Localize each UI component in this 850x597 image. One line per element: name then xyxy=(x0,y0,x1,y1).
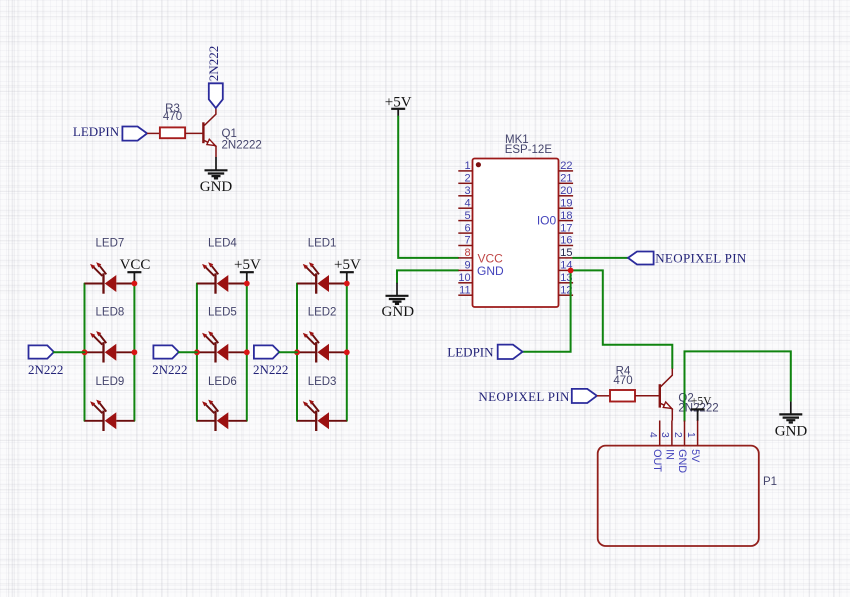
pin 11 xyxy=(458,284,472,296)
port NEOPIXEL PIN (right of IC) xyxy=(628,251,747,266)
power +5V (group2) xyxy=(234,257,261,284)
svg-text:GND: GND xyxy=(382,304,415,320)
power +5V (group3) xyxy=(334,257,361,284)
svg-text:470: 470 xyxy=(163,111,182,123)
wire R4 to Q2 base xyxy=(635,395,659,397)
port NEOPIXEL PIN (near R4) xyxy=(478,389,597,404)
pin 1 xyxy=(458,160,472,172)
wire left rail group1 xyxy=(84,284,86,421)
transistor Q2 xyxy=(660,369,719,421)
svg-text:2N222: 2N222 xyxy=(253,362,288,377)
LED LED1 xyxy=(297,238,347,294)
svg-text:LED5: LED5 xyxy=(208,307,237,319)
svg-text:8: 8 xyxy=(464,247,470,259)
svg-text:2N222: 2N222 xyxy=(206,46,221,81)
svg-text:LED3: LED3 xyxy=(308,376,337,388)
wire right rail group2 xyxy=(246,284,248,421)
wire pin 9 to GND xyxy=(397,270,458,282)
pin 12 xyxy=(559,284,574,296)
svg-text:LED7: LED7 xyxy=(96,238,125,250)
junction dot pin14 xyxy=(568,268,574,274)
pin 10 xyxy=(458,272,472,284)
port 2N222 (vertical, above Q1) xyxy=(206,46,223,108)
svg-text:5: 5 xyxy=(464,210,470,222)
svg-text:LED4: LED4 xyxy=(208,238,237,250)
pin 21 xyxy=(559,173,574,185)
svg-text:1: 1 xyxy=(464,160,470,172)
svg-text:VCC: VCC xyxy=(120,257,151,273)
pin 1 5V xyxy=(685,421,701,464)
pin 19 xyxy=(559,197,574,209)
port 2N222 (group3) xyxy=(253,345,288,377)
IC U=MK1 designator xyxy=(505,134,553,156)
pin 4 xyxy=(458,197,472,209)
svg-text:15: 15 xyxy=(560,247,572,259)
svg-text:GND: GND xyxy=(477,264,504,278)
svg-text:+5V: +5V xyxy=(334,257,361,273)
svg-text:+5V: +5V xyxy=(691,395,712,407)
svg-text:NEOPIXEL PIN: NEOPIXEL PIN xyxy=(478,389,570,404)
svg-text:2N222: 2N222 xyxy=(152,362,187,377)
LED LED2 xyxy=(297,307,347,363)
wire pin15 to port xyxy=(573,257,628,259)
pin 3 xyxy=(458,185,472,197)
junction dots mid group2 xyxy=(194,349,200,355)
svg-text:17: 17 xyxy=(560,222,572,234)
wire port to rail group3 xyxy=(279,351,297,353)
svg-text:LED2: LED2 xyxy=(308,307,337,319)
svg-text:9: 9 xyxy=(464,260,470,272)
pin 6 xyxy=(458,222,472,234)
LED LED4 xyxy=(197,238,247,294)
P1 body xyxy=(598,446,759,546)
port 2N222 (group1) xyxy=(28,345,63,377)
ground GND (below Q1) xyxy=(200,170,233,195)
svg-text:LEDPIN: LEDPIN xyxy=(73,124,120,139)
pin 17 xyxy=(559,222,574,234)
pin 5 xyxy=(458,210,472,222)
svg-text:1: 1 xyxy=(685,432,696,438)
port 2N222 (group2) xyxy=(152,345,187,377)
svg-text:IO0: IO0 xyxy=(537,213,557,227)
ground GND (right, near P1) xyxy=(775,401,808,440)
pin 18 xyxy=(559,210,574,222)
wire right rail group1 xyxy=(133,284,135,421)
svg-text:11: 11 xyxy=(459,284,470,296)
LED LED9 xyxy=(85,376,135,431)
svg-text:22: 22 xyxy=(560,160,572,172)
svg-text:10: 10 xyxy=(458,272,470,284)
svg-text:GND: GND xyxy=(676,449,688,473)
svg-text:2N2222: 2N2222 xyxy=(222,140,262,152)
svg-text:LED9: LED9 xyxy=(96,376,125,388)
svg-text:470: 470 xyxy=(613,375,632,387)
pin 16 xyxy=(559,235,574,247)
svg-text:18: 18 xyxy=(560,210,572,222)
power +5V (above IC) xyxy=(385,95,412,117)
svg-text:GND: GND xyxy=(775,424,808,440)
ground stem below Q1 xyxy=(215,157,217,170)
svg-text:ESP-12E: ESP-12E xyxy=(505,144,553,156)
svg-text:6: 6 xyxy=(464,222,470,234)
wire +5V to pin 8 xyxy=(398,117,458,258)
pin 8 xyxy=(458,247,472,259)
pin 15 xyxy=(559,247,574,259)
svg-text:GND: GND xyxy=(200,179,233,195)
svg-text:IN: IN xyxy=(663,449,675,460)
LED LED6 xyxy=(197,376,247,431)
LED LED5 xyxy=(197,307,247,363)
power +5V (at P1 pin1) xyxy=(691,395,713,421)
svg-text:3: 3 xyxy=(464,185,470,197)
svg-text:20: 20 xyxy=(560,185,572,197)
LED LED3 xyxy=(297,376,347,431)
svg-text:2N222: 2N222 xyxy=(28,362,63,377)
transistor Q1 xyxy=(203,109,261,158)
svg-text:NEOPIXEL PIN: NEOPIXEL PIN xyxy=(655,251,747,266)
svg-text:3: 3 xyxy=(659,432,670,438)
svg-text:7: 7 xyxy=(464,235,470,247)
pin 22 xyxy=(559,160,574,172)
svg-text:16: 16 xyxy=(560,235,572,247)
svg-text:LED8: LED8 xyxy=(96,307,125,319)
wire LEDPIN to R3 xyxy=(147,132,160,134)
pin 13 xyxy=(559,272,574,284)
pin 4 OUT xyxy=(647,421,663,473)
svg-text:Q1: Q1 xyxy=(222,128,237,140)
wire GND to P1 pin2 xyxy=(685,351,791,421)
svg-text:5V: 5V xyxy=(689,449,701,463)
pin 2 GND xyxy=(672,421,688,474)
junction dots mid group1 xyxy=(82,349,88,355)
wire port to rail group2 xyxy=(179,351,197,353)
wire left rail group2 xyxy=(196,284,198,421)
pin 3 IN xyxy=(659,421,675,460)
pin 7 xyxy=(458,235,472,247)
resistor R4 xyxy=(610,366,635,402)
junction dots mid group3 xyxy=(294,349,300,355)
junction dot top-right group1 xyxy=(132,281,138,287)
svg-text:P1: P1 xyxy=(763,476,777,488)
resistor R3 xyxy=(160,103,185,138)
ground stem (below wire) xyxy=(396,283,398,296)
svg-text:4: 4 xyxy=(464,197,470,209)
wire R3 to Q1 base xyxy=(185,132,202,134)
LED LED7 xyxy=(85,238,135,294)
junction dot top-right group3 xyxy=(344,281,350,287)
svg-text:4: 4 xyxy=(647,432,658,438)
svg-text:21: 21 xyxy=(560,173,572,185)
svg-text:+5V: +5V xyxy=(234,257,261,273)
pin 1 marker dot xyxy=(476,162,481,167)
junction dot top-right group2 xyxy=(244,281,250,287)
svg-text:2: 2 xyxy=(672,432,683,438)
port LEDPIN (top-left) xyxy=(73,124,147,140)
wire left rail group3 xyxy=(296,284,298,421)
wire port to rail group1 xyxy=(54,351,85,353)
pin 14 xyxy=(559,260,574,272)
wire pin14 down to LEDPIN xyxy=(523,270,571,351)
svg-text:LED6: LED6 xyxy=(208,376,237,388)
IC body MK1 ESP-12E xyxy=(473,159,559,308)
svg-text:19: 19 xyxy=(560,197,572,209)
wire right rail group3 xyxy=(346,284,348,421)
svg-text:OUT: OUT xyxy=(651,449,663,472)
wire port to R4 xyxy=(597,395,610,397)
wire pin14 right-down to Q2 collector xyxy=(571,270,673,368)
power VCC xyxy=(120,257,151,284)
svg-text:LED1: LED1 xyxy=(308,238,337,250)
svg-text:2: 2 xyxy=(464,173,470,185)
pin 2 xyxy=(458,173,472,185)
port LEDPIN (near IC) xyxy=(447,345,522,360)
pin 9 xyxy=(458,260,472,272)
LED LED8 xyxy=(85,307,135,363)
ground GND (under IC) xyxy=(382,296,415,320)
pin 20 xyxy=(559,185,574,197)
svg-text:LEDPIN: LEDPIN xyxy=(447,345,494,360)
